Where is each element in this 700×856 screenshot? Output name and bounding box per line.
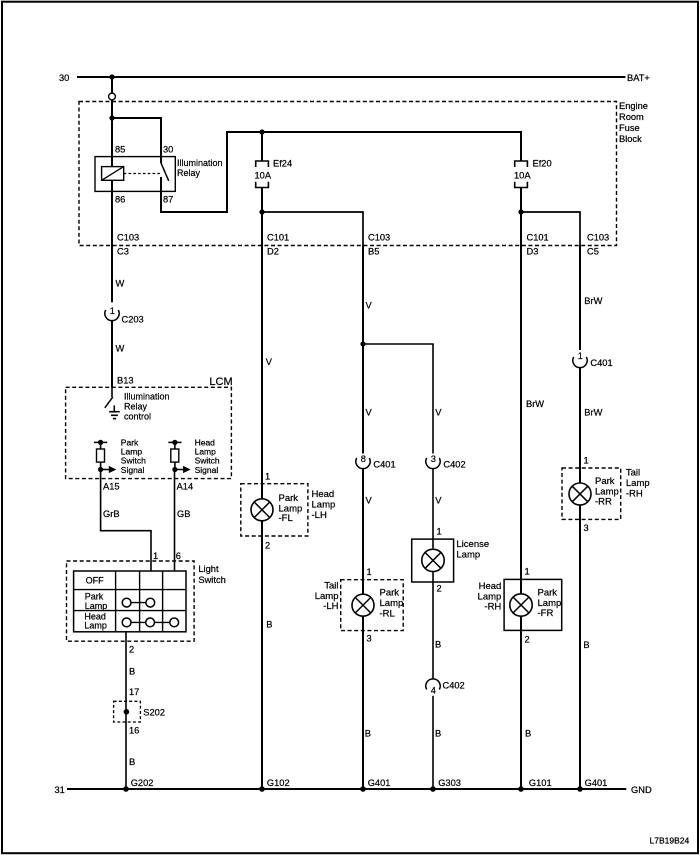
Light Switch dashed box bbox=[67, 561, 195, 641]
park lamp switch signal: top tick and junction bbox=[94, 441, 107, 443]
relay coil bbox=[102, 167, 124, 181]
svg-text:G102: G102 bbox=[267, 778, 290, 788]
wire relay 86 down through C103 C3 bbox=[111, 180, 113, 302]
wire from line 30 down to fuse block bbox=[111, 77, 113, 118]
svg-text:Light: Light bbox=[198, 564, 219, 574]
park lamp switch signal junction and arrow bbox=[98, 467, 103, 472]
svg-text:Relay: Relay bbox=[124, 402, 148, 412]
light switch table bbox=[74, 571, 186, 632]
svg-text:B13: B13 bbox=[117, 376, 134, 386]
svg-text:4: 4 bbox=[431, 686, 436, 696]
splice S202 junction bbox=[125, 701, 127, 722]
svg-text:-RR: -RR bbox=[595, 497, 612, 508]
svg-text:Tail: Tail bbox=[626, 467, 640, 478]
svg-text:C101: C101 bbox=[267, 233, 289, 243]
junction above relay bbox=[109, 115, 114, 120]
wire col4 to ground bbox=[432, 696, 434, 789]
svg-text:Lamp: Lamp bbox=[85, 601, 108, 611]
svg-text:L7B19B24: L7B19B24 bbox=[650, 836, 690, 846]
wire col5 lamp to ground bbox=[520, 616, 522, 789]
svg-text:V: V bbox=[435, 408, 442, 418]
svg-text:30: 30 bbox=[59, 73, 69, 83]
svg-text:-LH: -LH bbox=[312, 510, 327, 521]
svg-text:1: 1 bbox=[437, 526, 442, 536]
splice S202 dashed box bbox=[114, 701, 141, 722]
svg-text:31: 31 bbox=[55, 785, 65, 795]
svg-text:C401: C401 bbox=[590, 358, 612, 368]
wire col3 down bbox=[362, 246, 364, 454]
wire light switch pin 2 down bbox=[125, 632, 127, 702]
svg-text:V: V bbox=[435, 496, 442, 506]
svg-text:2: 2 bbox=[525, 635, 530, 645]
ground G401 junction right bbox=[577, 786, 583, 792]
svg-text:GB: GB bbox=[177, 509, 190, 519]
junction below Ef20 bbox=[518, 209, 523, 214]
wire fuse Ef24 out bbox=[261, 188, 263, 246]
wire relay 87 to fuse feed rail bbox=[161, 132, 521, 212]
wire fuse Ef20 out bbox=[520, 188, 522, 246]
svg-text:Park: Park bbox=[380, 588, 400, 599]
wire to G202 bbox=[125, 722, 127, 789]
connector C402 pin 3 bbox=[426, 458, 440, 469]
wire BAT+ line 30 bbox=[77, 76, 625, 78]
wire col3 below C401 bbox=[362, 469, 364, 594]
svg-text:B: B bbox=[525, 729, 531, 739]
svg-text:G401: G401 bbox=[368, 778, 391, 788]
License Lamp box bbox=[412, 539, 454, 582]
svg-text:V: V bbox=[366, 496, 373, 506]
LCM dashed box bbox=[66, 387, 232, 478]
lamp Park Lamp -FR bbox=[510, 594, 532, 616]
svg-text:GND: GND bbox=[631, 785, 652, 795]
svg-text:3: 3 bbox=[431, 454, 436, 464]
svg-text:Lamp: Lamp bbox=[626, 478, 650, 489]
svg-text:87: 87 bbox=[163, 195, 173, 205]
ground G401 junction bbox=[360, 786, 366, 792]
Park Lamp -FL dashed box bbox=[241, 484, 308, 536]
wire into fuse Ef24 bbox=[261, 132, 263, 161]
svg-text:Room: Room bbox=[619, 112, 644, 122]
svg-text:-FL: -FL bbox=[279, 513, 293, 524]
wire A14 to light switch pin 6 bbox=[174, 470, 176, 572]
wire col4 below C402 bbox=[432, 469, 434, 549]
svg-text:1: 1 bbox=[584, 456, 589, 466]
svg-text:85: 85 bbox=[115, 145, 125, 155]
svg-text:3: 3 bbox=[367, 634, 372, 644]
svg-text:V: V bbox=[266, 357, 273, 367]
ground G202 junction bbox=[123, 786, 129, 792]
wire A15 to light switch pin 1 bbox=[101, 470, 151, 572]
wire branch to C103 B5 column bbox=[262, 212, 363, 246]
svg-text:W: W bbox=[116, 279, 125, 289]
Park Lamp -FR box bbox=[504, 579, 562, 630]
wire col2 lamp to ground bbox=[261, 521, 263, 789]
wire col5 down bbox=[520, 246, 522, 594]
lamp Park Lamp -RR bbox=[569, 483, 591, 505]
svg-text:6: 6 bbox=[176, 551, 181, 561]
lamp License Lamp bbox=[422, 549, 444, 571]
svg-text:30: 30 bbox=[163, 145, 173, 155]
wire col6 down bbox=[579, 246, 581, 351]
svg-text:B: B bbox=[129, 757, 135, 767]
svg-text:1: 1 bbox=[110, 306, 115, 316]
svg-text:Signal: Signal bbox=[195, 465, 219, 475]
svg-text:Block: Block bbox=[619, 134, 642, 144]
svg-text:Switch: Switch bbox=[198, 575, 225, 585]
svg-text:3: 3 bbox=[584, 523, 589, 533]
svg-text:G101: G101 bbox=[529, 778, 552, 788]
svg-text:-RL: -RL bbox=[380, 609, 395, 620]
svg-text:BrW: BrW bbox=[584, 408, 602, 418]
svg-text:2: 2 bbox=[437, 583, 442, 593]
svg-text:B: B bbox=[129, 667, 135, 677]
svg-text:Illumination: Illumination bbox=[124, 392, 170, 402]
svg-text:G401: G401 bbox=[585, 778, 608, 788]
svg-text:B: B bbox=[435, 729, 441, 739]
svg-text:1: 1 bbox=[265, 472, 270, 482]
svg-text:Illumination: Illumination bbox=[177, 158, 223, 168]
svg-text:Relay: Relay bbox=[177, 168, 201, 178]
wire below C203 bbox=[111, 321, 113, 388]
connector C401 pin 1 bbox=[573, 357, 587, 368]
Tail Lamp -RR dashed box bbox=[562, 468, 621, 519]
svg-text:V: V bbox=[366, 301, 373, 311]
svg-text:B5: B5 bbox=[368, 247, 379, 257]
svg-text:1: 1 bbox=[367, 567, 372, 577]
svg-text:Lamp: Lamp bbox=[312, 499, 336, 510]
svg-text:W: W bbox=[116, 344, 125, 354]
head row contacts bbox=[127, 621, 175, 623]
svg-text:B: B bbox=[435, 640, 441, 650]
svg-text:Lamp: Lamp bbox=[456, 550, 480, 561]
svg-text:1: 1 bbox=[578, 351, 583, 361]
svg-text:Head: Head bbox=[312, 489, 335, 500]
svg-text:Ef20: Ef20 bbox=[533, 159, 552, 169]
park lamp switch signal resistor bbox=[100, 442, 102, 449]
svg-text:1: 1 bbox=[153, 551, 158, 561]
svg-text:BAT+: BAT+ bbox=[627, 73, 650, 83]
head lamp switch signal: top tick and junction bbox=[168, 441, 181, 443]
connector circle at fuse block entry bbox=[109, 93, 116, 100]
wire ground rail 31 bbox=[67, 788, 626, 790]
svg-text:16: 16 bbox=[129, 726, 139, 736]
svg-text:C203: C203 bbox=[122, 315, 144, 325]
ground G101 junction bbox=[518, 786, 524, 792]
svg-text:Ef24: Ef24 bbox=[273, 159, 292, 169]
svg-text:C402: C402 bbox=[443, 460, 465, 470]
relay contact blade bbox=[161, 163, 169, 181]
svg-text:Lamp: Lamp bbox=[84, 620, 107, 630]
svg-text:10A: 10A bbox=[514, 171, 531, 181]
svg-text:Signal: Signal bbox=[121, 465, 145, 475]
park row contacts bbox=[127, 602, 151, 604]
lamp Park Lamp -FL bbox=[251, 499, 273, 521]
svg-text:C402: C402 bbox=[443, 681, 465, 691]
head lamp switch signal resistor bbox=[174, 442, 176, 449]
wire branch to license lamp column bbox=[363, 344, 433, 454]
junction on line 30 bbox=[109, 74, 114, 79]
svg-text:C401: C401 bbox=[373, 460, 395, 470]
svg-text:control: control bbox=[124, 412, 151, 422]
svg-text:D3: D3 bbox=[527, 247, 539, 257]
switch blade Illumination Relay control bbox=[105, 397, 113, 408]
connector C402 pin 4 bbox=[426, 679, 440, 690]
wire col3 lamp to ground bbox=[362, 616, 364, 789]
svg-text:C5: C5 bbox=[587, 247, 599, 257]
svg-text:C3: C3 bbox=[117, 247, 129, 257]
connector C203 pin 1 bbox=[105, 310, 119, 321]
svg-text:OFF: OFF bbox=[86, 576, 104, 586]
fuse Ef24 bbox=[256, 161, 269, 167]
svg-text:BrW: BrW bbox=[526, 399, 544, 409]
svg-text:8: 8 bbox=[361, 454, 366, 464]
svg-text:Fuse: Fuse bbox=[619, 123, 640, 133]
svg-text:D2: D2 bbox=[267, 247, 279, 257]
ground symbol inside LCM bbox=[113, 405, 115, 411]
svg-text:-LH: -LH bbox=[323, 601, 338, 612]
wire col4 lamp down to C402 pin 4 bbox=[432, 571, 434, 680]
ground G102 junction bbox=[259, 786, 265, 792]
svg-text:A14: A14 bbox=[177, 482, 194, 492]
junction col3 branch to col4 bbox=[360, 341, 365, 346]
svg-text:C101: C101 bbox=[527, 233, 549, 243]
svg-text:G202: G202 bbox=[131, 778, 154, 788]
svg-text:B: B bbox=[365, 729, 371, 739]
svg-text:-FR: -FR bbox=[538, 608, 554, 619]
svg-text:V: V bbox=[366, 408, 373, 418]
svg-text:C103: C103 bbox=[368, 233, 390, 243]
wire col2 down bbox=[261, 246, 263, 499]
svg-text:B: B bbox=[266, 620, 272, 630]
svg-text:BrW: BrW bbox=[584, 296, 602, 306]
svg-text:10A: 10A bbox=[255, 171, 272, 181]
wire branch to C103 C5 column bbox=[521, 212, 580, 246]
svg-text:S202: S202 bbox=[143, 708, 165, 718]
svg-text:1: 1 bbox=[525, 567, 530, 577]
svg-text:2: 2 bbox=[265, 540, 270, 550]
wire B13 inside LCM bbox=[111, 387, 113, 397]
lamp Park Lamp -RL bbox=[352, 594, 374, 616]
junction fuse Ef24 top bbox=[259, 129, 264, 134]
svg-text:License: License bbox=[456, 539, 489, 550]
svg-text:Lamp: Lamp bbox=[380, 598, 404, 609]
svg-text:-RH: -RH bbox=[484, 602, 501, 613]
relay contact pin 30 stub bbox=[160, 157, 162, 163]
svg-text:Engine: Engine bbox=[619, 101, 648, 111]
svg-text:A15: A15 bbox=[103, 482, 120, 492]
svg-text:-RH: -RH bbox=[626, 489, 643, 500]
svg-text:B: B bbox=[583, 640, 589, 650]
svg-text:86: 86 bbox=[115, 195, 125, 205]
Engine Room Fuse Block dashed box bbox=[79, 102, 617, 246]
svg-text:C103: C103 bbox=[117, 233, 139, 243]
relay K1 Illumination Relay box bbox=[95, 157, 175, 192]
svg-text:17: 17 bbox=[129, 687, 139, 697]
svg-text:G303: G303 bbox=[438, 778, 461, 788]
wire relay coil pin 85 bbox=[111, 118, 113, 167]
fuse Ef20 bbox=[515, 161, 528, 167]
ground G303 junction bbox=[430, 786, 436, 792]
wire junction to relay pin 30 bbox=[112, 118, 161, 157]
svg-text:LCM: LCM bbox=[209, 376, 232, 388]
Park Lamp -RL dashed box bbox=[341, 580, 404, 631]
svg-text:2: 2 bbox=[129, 645, 134, 655]
junction below Ef24 bbox=[259, 209, 264, 214]
svg-text:GrB: GrB bbox=[103, 509, 120, 519]
head lamp switch signal junction and arrow bbox=[172, 467, 177, 472]
svg-text:C103: C103 bbox=[587, 233, 609, 243]
relay dashed actuator link bbox=[124, 173, 162, 175]
wire col6 lamp to ground bbox=[579, 505, 581, 789]
wire col6 below C401 bbox=[579, 368, 581, 483]
connector C401 pin 8 bbox=[356, 458, 370, 469]
